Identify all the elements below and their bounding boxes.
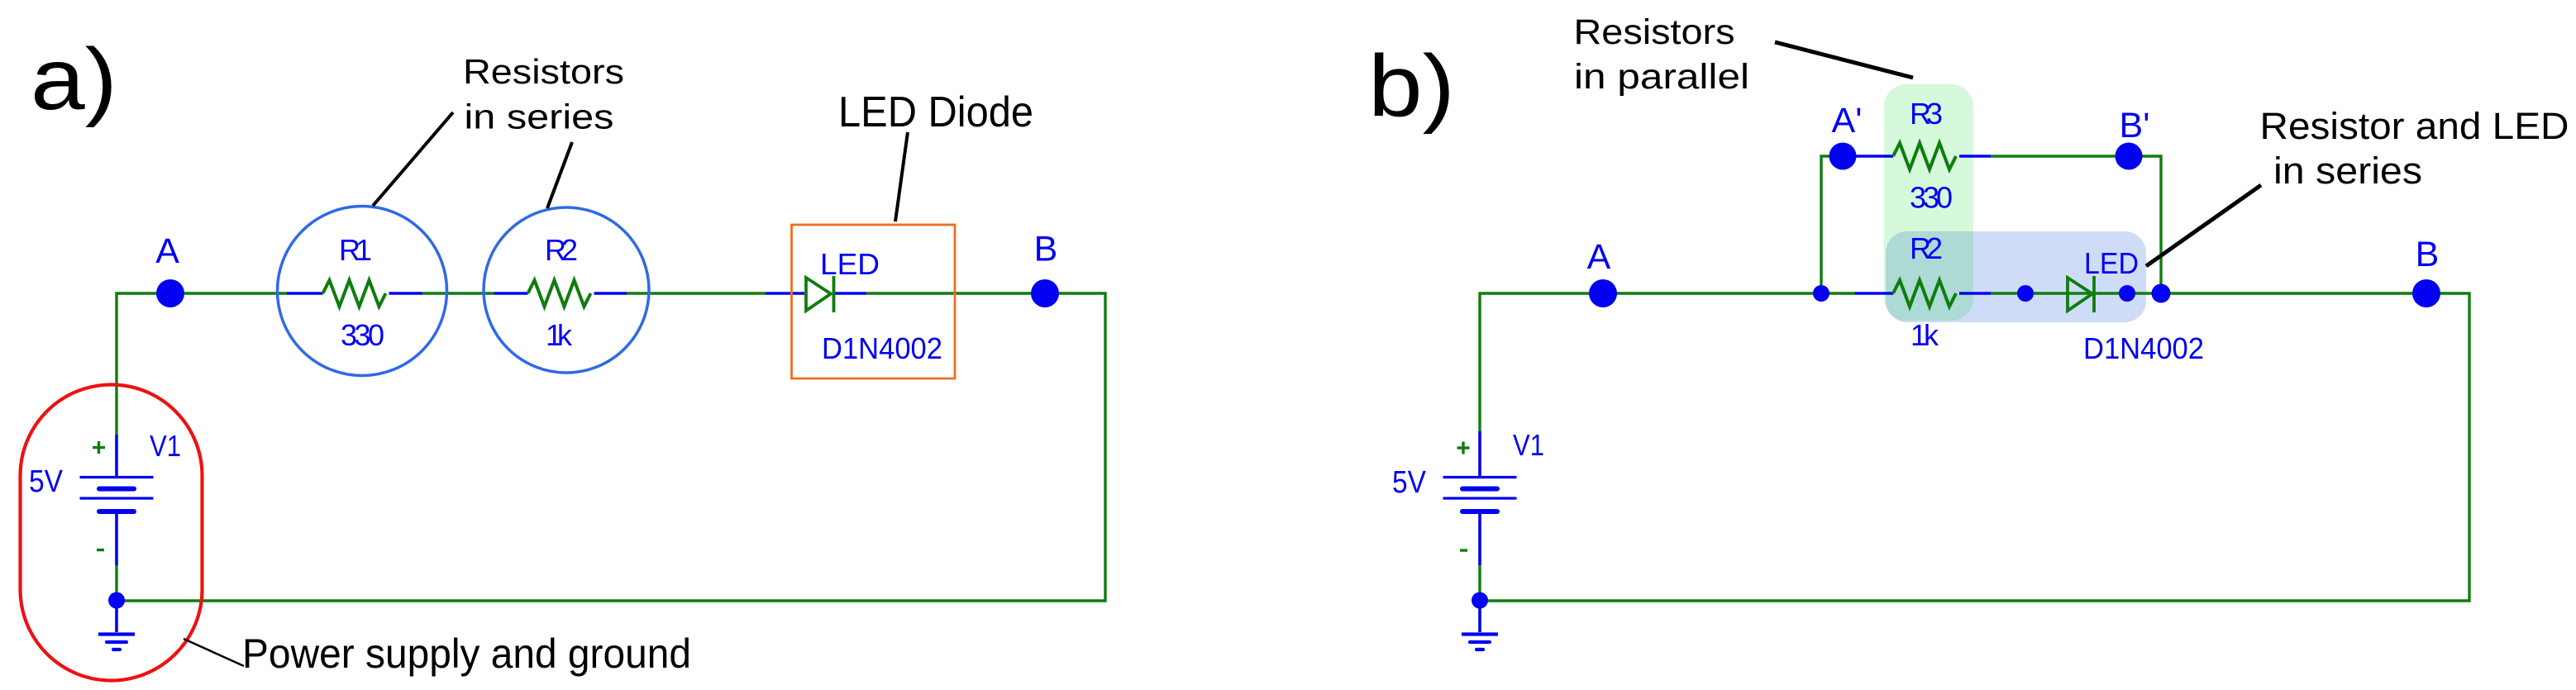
svg-text:1k: 1k [1911, 318, 1939, 352]
svg-text:D1N4002: D1N4002 [2083, 331, 2204, 365]
annotation line from red ellipse [184, 639, 244, 666]
wire branch left vertical and top row panel b [1821, 156, 1856, 293]
battery V1 bottom pin panel b [1478, 513, 1481, 565]
annotation line to R2 circle [547, 142, 572, 208]
svg-text:Resistors: Resistors [463, 52, 624, 91]
resistor R3 zigzag [1893, 143, 1956, 169]
svg-text:D1N4002: D1N4002 [822, 331, 942, 365]
svg-text:R2: R2 [1910, 231, 1943, 265]
node B' dot [2116, 143, 2143, 170]
svg-text:b): b) [1368, 37, 1455, 135]
annotation line to R1 circle [373, 112, 453, 206]
svg-text:in series: in series [465, 98, 614, 136]
battery minus sign panel b [1460, 549, 1467, 551]
pin lead right of R2 [594, 292, 627, 295]
svg-text:Resistors: Resistors [1574, 12, 1735, 52]
svg-text:330: 330 [341, 318, 384, 352]
pin lead left of R2 panel b [1855, 292, 1893, 295]
svg-text:R2: R2 [545, 233, 578, 267]
junction dot LED cathode panel b [2119, 285, 2135, 302]
diode LED panel b triangle [2068, 278, 2092, 311]
wire left corner to A-row panel a [117, 293, 287, 435]
node A dot panel b [1589, 279, 1617, 307]
node B dot panel a [1031, 279, 1059, 307]
svg-text:330: 330 [1910, 181, 1953, 215]
pin lead right of R2 panel b [1959, 292, 1991, 295]
svg-text:LED: LED [2084, 246, 2139, 280]
junction dot branch right panel b [2152, 284, 2171, 303]
pin lead left of R1 [287, 292, 323, 295]
svg-text:LED: LED [820, 247, 880, 281]
svg-text:A: A [155, 231, 179, 271]
svg-text:5V: 5V [29, 464, 64, 499]
diode LED panel a triangle [806, 278, 831, 311]
ground symbol panel b [1462, 601, 1498, 650]
wire left corner to main row panel b [1480, 293, 1855, 431]
annotation red ellipse around power supply [21, 385, 203, 681]
svg-text:a): a) [31, 31, 117, 128]
svg-text:Resistor and LED: Resistor and LED [2260, 105, 2569, 147]
wire battery minus to junction panel b [1478, 565, 1481, 601]
junction dot R2-LED panel b [2017, 285, 2034, 302]
svg-text:in parallel: in parallel [1574, 57, 1749, 97]
svg-text:LED Diode: LED Diode [838, 88, 1033, 136]
resistor R2 zigzag panel a [528, 280, 591, 307]
svg-text:R3: R3 [1910, 97, 1943, 131]
pin lead right of LED panel a [835, 292, 866, 295]
pin lead left of R3 [1856, 155, 1893, 158]
svg-text:5V: 5V [1392, 465, 1427, 500]
svg-text:R1: R1 [339, 233, 372, 267]
wire after R3 to B' corner down to main row panel b [1991, 156, 2161, 293]
svg-text:Power supply and ground: Power supply and ground [242, 631, 691, 677]
battery V1 top pin panel a [115, 435, 118, 476]
ground symbol panel a [98, 601, 135, 650]
wire R2 to LED then loop to bottom panel b [1480, 293, 2469, 601]
diode LED panel b cathode bar [2092, 276, 2096, 312]
wire between R2 and LED panel a [627, 292, 766, 294]
annotation line to green highlight [1775, 42, 1913, 78]
svg-text:B: B [2416, 235, 2440, 274]
battery plus sign panel a [93, 441, 105, 454]
svg-text:in series: in series [2273, 150, 2422, 192]
annotation circle around R2 [484, 207, 649, 373]
junction dot branch left panel b [1813, 285, 1829, 302]
wire between R1 and R2 panel a [422, 292, 494, 294]
annotation line to blue highlight [2146, 185, 2261, 266]
junction dot battery-ground panel b [1472, 592, 1488, 609]
battery V1 bottom pin panel a [115, 513, 118, 565]
node A dot panel a [156, 279, 184, 307]
svg-text:A': A' [1832, 101, 1863, 140]
svg-text:V1: V1 [150, 429, 181, 463]
wire LED to B then loop to bottom panel a [117, 293, 1105, 601]
svg-text:1k: 1k [546, 318, 573, 352]
wire battery minus to junction panel a [115, 565, 117, 601]
resistor R2 zigzag panel b [1893, 280, 1956, 307]
annotation circle around R1 [278, 207, 447, 376]
diode LED panel a cathode bar [832, 276, 836, 312]
battery V1 panel b plates [1443, 478, 1517, 512]
node B dot panel b [2412, 279, 2440, 307]
resistor R1 zigzag [323, 280, 386, 307]
pin lead left of LED panel a [766, 292, 804, 295]
battery plus sign panel b [1457, 442, 1470, 454]
svg-text:B': B' [2120, 106, 2150, 145]
svg-text:V1: V1 [1513, 428, 1544, 462]
annotation orange box around LED [792, 225, 956, 378]
pin lead left of R2 [494, 292, 528, 295]
node A' dot [1829, 143, 1857, 170]
battery V1 top pin panel b [1478, 431, 1481, 476]
highlight green: resistors in parallel [1884, 84, 1973, 321]
svg-text:A: A [1587, 237, 1611, 277]
svg-text:B: B [1034, 230, 1058, 269]
annotation line to LED box [895, 132, 908, 221]
battery V1 panel a plates [80, 478, 154, 512]
battery minus sign panel a [97, 549, 104, 551]
pin lead right of R1 [389, 292, 423, 295]
highlight blue: resistor and LED in series [1886, 231, 2146, 322]
junction dot battery-ground panel a [108, 592, 125, 609]
pin lead right of R3 [1959, 155, 1991, 158]
